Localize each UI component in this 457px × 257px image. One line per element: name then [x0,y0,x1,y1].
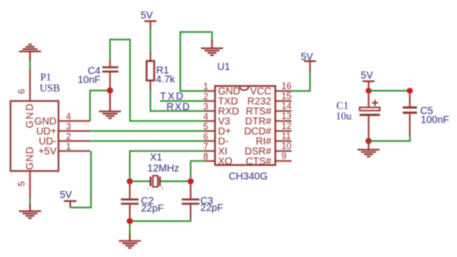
svg-text:RXD: RXD [167,102,191,113]
svg-text:10u: 10u [336,111,353,122]
ground below C1 [358,149,380,158]
ground above U1 [201,40,223,56]
svg-text:16: 16 [282,81,292,91]
wire bottom rail [369,136,410,141]
svg-text:12MHz: 12MHz [147,164,179,175]
wire junction to ground [129,224,131,234]
svg-text:6: 6 [203,131,208,141]
svg-text:5: 5 [16,181,26,186]
svg-text:5V: 5V [301,52,314,63]
capacitor C5 [403,94,417,136]
svg-text:14: 14 [282,101,292,111]
ground below C4 [99,93,121,119]
U1 pin 13 [275,120,291,122]
wire 5V rail top [369,90,410,92]
junction dot at C4 bottom [107,87,113,93]
svg-text:XO: XO [218,157,233,168]
svg-text:TXD: TXD [160,92,185,103]
svg-text:USB: USB [40,83,60,94]
U1 pin 3 [205,110,216,112]
svg-text:CH340G: CH340G [229,171,268,182]
svg-text:22pF: 22pF [200,203,223,214]
5V supply terminal above VCC [304,60,316,71]
svg-text:15: 15 [282,91,292,101]
svg-text:100nF: 100nF [421,115,449,126]
capacitor C3 [182,184,200,219]
wire VCC to 5V [292,72,311,92]
svg-text:8: 8 [203,151,208,161]
svg-text:5: 5 [203,121,208,131]
U1 pin 6 [205,140,216,142]
U1 pin 9 [275,160,291,162]
USB pin 3 [59,130,91,132]
svg-text:4: 4 [66,111,71,121]
svg-text:3: 3 [66,121,71,131]
wire XO to crystal [191,161,205,178]
U1 pin 8 [205,160,216,162]
capacitor C4 [102,60,118,88]
U1 pin 10 [275,150,291,152]
IC notch [240,87,249,90]
IC U1 box [215,86,275,165]
wire crystal left lead [133,180,150,182]
U1 pin 14 [275,110,291,112]
crystal X1 [150,176,161,187]
ground (inverted) above USB P1 [19,44,41,61]
USB pin 5 [29,171,31,199]
junction dot C1 bottom [366,138,372,144]
5V supply terminal near USB [64,200,77,207]
svg-text:7: 7 [203,141,208,151]
connector P1 box [11,101,59,171]
svg-text:2: 2 [203,91,208,101]
wire crystal right lead [161,180,188,182]
wire USB GND pin4 riser [90,91,107,122]
svg-text:3: 3 [203,101,208,111]
5V supply terminal above R1 [144,20,156,29]
5V supply terminal (right section) [363,80,375,87]
svg-text:4.7k: 4.7k [156,75,176,86]
U1 pin 16 [275,90,291,92]
svg-text:10nF: 10nF [78,75,101,86]
svg-text:13: 13 [282,111,292,121]
junction dot crystal right [188,178,194,184]
U1 pin 2 [205,100,216,102]
wire XI to crystal [130,151,205,178]
wire UD+ to D+ [90,130,205,132]
resistor R1 [147,52,155,90]
svg-text:GND: GND [25,146,36,170]
svg-text:2: 2 [66,131,71,141]
U1 pin 11 [275,140,291,142]
svg-text:5V: 5V [141,11,154,22]
capacitor C1 (polarized) [360,94,380,138]
U1 pin 7 [205,150,216,152]
wire R1 to RXD net [150,90,204,112]
U1 pin 12 [275,130,291,132]
wire C1 junction to ground [368,144,370,149]
svg-text:5V: 5V [361,70,374,81]
svg-text:11: 11 [282,131,291,141]
ground below USB P1 [19,204,41,219]
svg-text:1: 1 [203,81,208,91]
wire C3 bottom to C2 bottom [133,220,191,221]
svg-text:5V: 5V [60,190,73,201]
wire U1 GND (pin1) to ground [180,32,212,91]
svg-text:4: 4 [203,111,208,121]
svg-text:9: 9 [282,151,287,161]
wire pin5 to ground [29,199,31,205]
ground below crystal caps [119,234,141,249]
U1 pin 1 [205,90,216,92]
svg-text:10: 10 [282,141,292,151]
svg-text:CTS#: CTS# [246,157,272,168]
USB pin 1 [59,150,91,152]
svg-text:22pF: 22pF [141,203,164,214]
svg-text:1: 1 [66,141,71,151]
svg-text:P1: P1 [40,72,51,83]
junction dot crystal ground [127,218,133,224]
junction dot 5V left [366,88,372,94]
U1 pin 15 [275,100,291,102]
USB pin 2 [59,140,91,142]
capacitor C2 [121,184,139,218]
wire TXD net [160,100,205,102]
svg-text:12: 12 [282,121,292,131]
wire UD- to D- [90,140,205,142]
svg-text:X1: X1 [150,153,163,164]
svg-text:+5V: +5V [38,147,56,158]
wire C4 to V3 (pin4 of U1) [110,40,205,122]
svg-text:U1: U1 [217,62,230,73]
junction dot 5V right [407,88,413,94]
svg-text:6: 6 [16,89,26,94]
wire 5V to R1 [149,30,151,53]
U1 pin 5 [205,130,216,132]
junction dot crystal left [127,178,133,184]
wire gnd to pin6 [29,61,31,70]
U1 pin 4 [205,120,216,122]
USB pin 6 [29,70,31,102]
USB pin 4 [59,120,91,122]
wire +5V pin to 5V terminal [70,151,91,208]
